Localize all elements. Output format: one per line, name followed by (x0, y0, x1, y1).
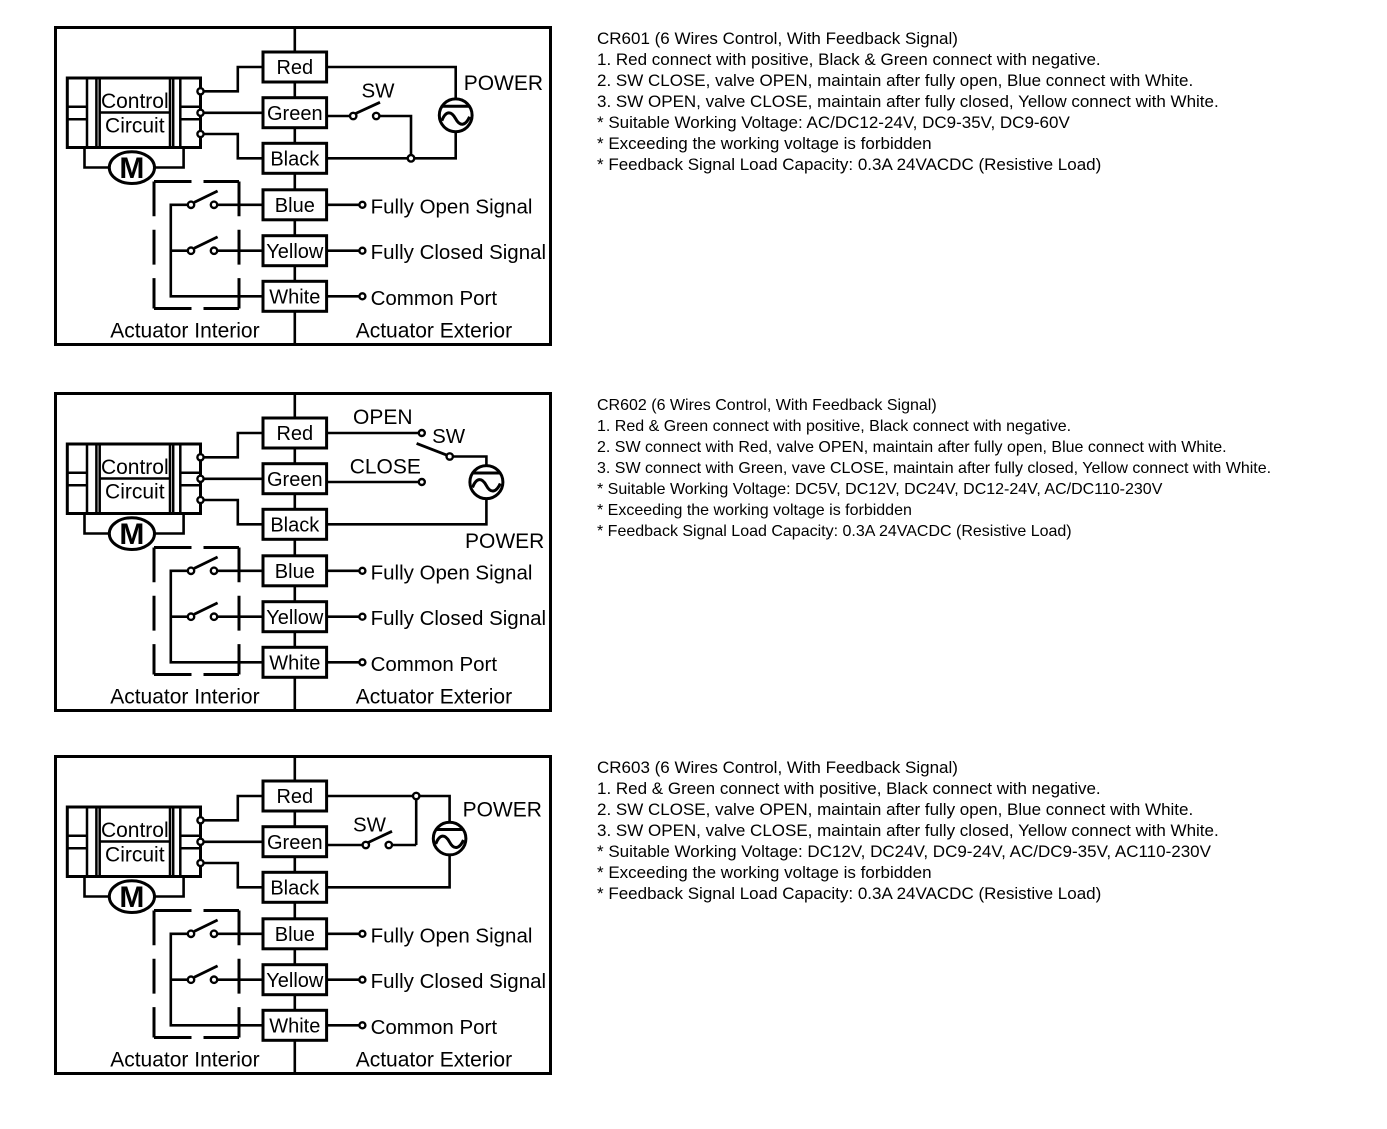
svg-text:Red: Red (276, 57, 313, 79)
svg-text:Blue: Blue (275, 924, 315, 946)
wire + terminal node: Fully Closed Signal (diagram 1) (327, 241, 546, 264)
control circuit block U3 terminal bars (87, 807, 180, 877)
wire + terminal node: Fully Open Signal (diagram 1) (327, 195, 533, 218)
svg-text:Black: Black (270, 514, 320, 536)
AC power source PS1 (439, 99, 472, 132)
feedback switch enclosure (dashed) diagram 1 (154, 182, 239, 309)
wire: control pin 2 to Green terminal (204, 477, 263, 480)
svg-text:CLOSE: CLOSE (350, 455, 421, 478)
terminal box Blue (diagram 3) (263, 919, 327, 949)
node: junction on Black wire (diagram 1) (408, 155, 415, 162)
svg-text:Fully Open Signal: Fully Open Signal (371, 561, 533, 584)
svg-text:M: M (119, 518, 144, 551)
wire: feedback common bus (diagram 2) (171, 571, 263, 663)
svg-text:Common Port: Common Port (371, 653, 498, 676)
terminal box Green (diagram 2) (263, 464, 327, 494)
wire + terminal node: Fully Open Signal (diagram 3) (327, 924, 533, 947)
wire: switch SW1 to Black wire junction (379, 116, 411, 155)
terminal box White (diagram 2) (263, 647, 327, 677)
wire + terminal node: Common Port (diagram 3) (327, 1016, 498, 1039)
svg-text:Green: Green (267, 469, 323, 491)
node: control block terminal pins (diagram 3) (197, 817, 203, 866)
svg-text:POWER: POWER (464, 72, 543, 95)
terminal box Green (diagram 1) (263, 98, 327, 128)
terminal box Black (diagram 2) (263, 509, 327, 539)
control circuit block U3 outer frame (67, 807, 200, 877)
terminal box Red (diagram 3) (263, 781, 327, 811)
wire: feedback common bus (diagram 1) (171, 205, 263, 296)
wire: Black terminal to power source (diagram 2) (327, 498, 487, 524)
wire: control pin 2 to Green terminal (204, 841, 263, 844)
svg-text:Blue: Blue (275, 561, 315, 583)
wire: feedback common bus (diagram 3) (171, 934, 263, 1026)
control circuit block U2 label "Control Circuit" (101, 456, 169, 503)
svg-text:Control: Control (101, 90, 169, 113)
svg-text:Green: Green (267, 103, 323, 125)
svg-text:M: M (119, 881, 144, 914)
svg-text:White: White (269, 287, 320, 309)
node: control block terminal pins (diagram 1) (197, 88, 203, 137)
wire: control pin 1 to Red terminal (204, 67, 263, 91)
label SW (diagram 3) (353, 813, 387, 836)
wire: Red terminal to OPEN contact (diagram 2) (327, 432, 419, 435)
wire + terminal node: Fully Closed Signal (diagram 2) (327, 607, 546, 630)
svg-text:Actuator Interior: Actuator Interior (110, 1049, 259, 1072)
svg-text:SW: SW (362, 80, 396, 103)
label: Actuator Interior (diagram 2) (110, 685, 259, 708)
svg-text:OPEN: OPEN (353, 406, 413, 429)
svg-text:Red: Red (276, 786, 313, 808)
svg-text:Yellow: Yellow (266, 970, 324, 992)
control circuit block U3 cell divider lines (67, 836, 200, 849)
wire: control pin 1 to Red terminal (204, 796, 263, 820)
node: junction on Red wire (diagram 3) (413, 793, 419, 799)
control circuit block U1 terminal bars (87, 78, 180, 148)
wire: Green terminal to switch SW1 (327, 115, 350, 118)
svg-text:Circuit: Circuit (105, 115, 165, 138)
svg-text:Fully Open Signal: Fully Open Signal (371, 924, 533, 947)
svg-text:White: White (269, 1016, 320, 1038)
label: Actuator Exterior (diagram 3) (356, 1049, 512, 1072)
switch SW2 blade and pivot (417, 443, 453, 459)
svg-text:M: M (119, 152, 144, 185)
svg-text:Fully Closed Signal: Fully Closed Signal (371, 607, 546, 630)
node: control block terminal pins (diagram 2) (197, 454, 203, 503)
label POWER (diagram 1) (464, 72, 543, 95)
label SW (diagram 2) (432, 425, 466, 448)
wire: Green terminal to CLOSE contact (diagram 2) (327, 481, 419, 484)
feedback switch enclosure (dashed) diagram 2 (154, 547, 239, 674)
wire: control pin 1 to Red terminal (204, 433, 263, 457)
node: OPEN contact (419, 430, 425, 436)
terminal box White (diagram 3) (263, 1010, 327, 1040)
svg-text:Actuator Interior: Actuator Interior (110, 685, 259, 708)
wire: Black terminal to power source (diagram 1) (327, 132, 456, 159)
svg-text:Fully Closed Signal: Fully Closed Signal (371, 970, 546, 993)
motor M2 (109, 518, 154, 551)
feedback switch S2b (fully closed) (188, 603, 263, 620)
terminal box Red (diagram 1) (263, 52, 327, 82)
terminal box Yellow (diagram 2) (263, 602, 327, 632)
wire: control pin 3 to Black terminal (204, 863, 263, 887)
wire: Red terminal to power source (diagram 3) (327, 796, 450, 822)
svg-text:Black: Black (270, 878, 320, 900)
svg-text:Actuator Exterior: Actuator Exterior (356, 1049, 512, 1072)
feedback switch S2a (fully open) (188, 557, 263, 574)
wire: Red junction down to switch SW3 (415, 796, 418, 845)
wire: Red terminal to power source (diagram 1) (327, 67, 456, 99)
label POWER (diagram 3) (463, 798, 542, 821)
terminal box Green (diagram 3) (263, 827, 327, 857)
svg-text:Yellow: Yellow (266, 241, 324, 263)
control circuit block U1 label "Control Circuit" (101, 90, 169, 137)
wire: center bus line through terminal boxes (diagram 3) (293, 757, 296, 1074)
wire + terminal node: Fully Closed Signal (diagram 3) (327, 970, 546, 993)
label OPEN (353, 406, 413, 429)
wire: center bus line through terminal boxes (diagram 1) (293, 28, 296, 345)
label SW (diagram 1) (362, 80, 396, 103)
wire: control block to motor M1 (85, 148, 184, 168)
svg-text:POWER: POWER (463, 798, 542, 821)
svg-text:Control: Control (101, 456, 169, 479)
svg-text:Black: Black (270, 149, 320, 171)
svg-text:Red: Red (276, 423, 313, 445)
feedback switch S1b (fully closed) (188, 237, 263, 254)
svg-text:Actuator Exterior: Actuator Exterior (356, 319, 512, 342)
motor M1 (109, 152, 154, 185)
switch SW1 (350, 102, 380, 119)
control circuit block U1 cell divider lines (67, 107, 200, 120)
terminal box Blue (diagram 2) (263, 556, 327, 586)
wire: control pin 3 to Black terminal (204, 500, 263, 524)
control circuit block U2 terminal bars (87, 444, 180, 514)
diagram 2 border frame (56, 393, 551, 710)
diagram 1 border frame (56, 28, 551, 345)
terminal box Blue (diagram 1) (263, 190, 327, 220)
terminal box Black (diagram 1) (263, 143, 327, 173)
switch SW3 (363, 831, 417, 848)
wire: switch pivot to power source (diagram 2) (453, 456, 487, 465)
svg-text:SW: SW (353, 813, 387, 836)
svg-text:Fully Closed Signal: Fully Closed Signal (371, 241, 546, 264)
AC power source PS3 (433, 822, 466, 855)
svg-text:Common Port: Common Port (371, 1016, 498, 1039)
label: Actuator Interior (diagram 1) (110, 319, 259, 342)
wire: control pin 2 to Green terminal (204, 112, 263, 115)
motor M3 (109, 881, 154, 914)
wire: control pin 3 to Black terminal (204, 134, 263, 158)
terminal box Black (diagram 3) (263, 872, 327, 902)
terminal box Red (diagram 2) (263, 418, 327, 448)
wire + terminal node: Fully Open Signal (diagram 2) (327, 561, 533, 584)
feedback switch S1a (fully open) (188, 191, 263, 208)
svg-text:White: White (269, 652, 320, 674)
svg-text:Control: Control (101, 819, 169, 842)
label CLOSE (350, 455, 421, 478)
terminal box Yellow (diagram 1) (263, 236, 327, 266)
feedback switch S3a (fully open) (188, 920, 263, 937)
label POWER (diagram 2) (465, 530, 544, 553)
label: Actuator Interior (diagram 3) (110, 1049, 259, 1072)
label: Actuator Exterior (diagram 2) (356, 685, 512, 708)
AC power source PS2 (470, 465, 503, 498)
feedback switch S3b (fully closed) (188, 966, 263, 983)
svg-text:Green: Green (267, 832, 323, 854)
svg-text:Actuator Exterior: Actuator Exterior (356, 685, 512, 708)
wire: Green terminal to switch SW3 (327, 844, 363, 847)
wire: center bus line through terminal boxes (diagram 2) (293, 393, 296, 710)
terminal box Yellow (diagram 3) (263, 965, 327, 995)
wire + terminal node: Common Port (diagram 1) (327, 287, 498, 310)
control circuit block U2 outer frame (67, 444, 200, 514)
svg-text:Circuit: Circuit (105, 844, 165, 867)
label: Actuator Exterior (diagram 1) (356, 319, 512, 342)
feedback switch enclosure (dashed) diagram 3 (154, 911, 239, 1038)
svg-text:SW: SW (432, 425, 466, 448)
wire: Black terminal to power source (diagram 3) (327, 855, 450, 887)
svg-text:Common Port: Common Port (371, 287, 498, 310)
svg-text:Yellow: Yellow (266, 607, 324, 629)
node: CLOSE contact (419, 479, 425, 485)
wire: control block to motor M3 (85, 877, 184, 897)
svg-text:Circuit: Circuit (105, 480, 165, 503)
diagram 3 border frame (56, 757, 551, 1074)
svg-text:Fully Open Signal: Fully Open Signal (371, 195, 533, 218)
svg-text:POWER: POWER (465, 530, 544, 553)
control circuit block U3 label "Control Circuit" (101, 819, 169, 866)
control circuit block U2 cell divider lines (67, 473, 200, 486)
svg-text:Blue: Blue (275, 195, 315, 217)
wire: control block to motor M2 (85, 513, 184, 533)
wire + terminal node: Common Port (diagram 2) (327, 653, 498, 676)
control circuit block U1 outer frame (67, 78, 200, 148)
svg-text:Actuator Interior: Actuator Interior (110, 319, 259, 342)
terminal box White (diagram 1) (263, 281, 327, 311)
